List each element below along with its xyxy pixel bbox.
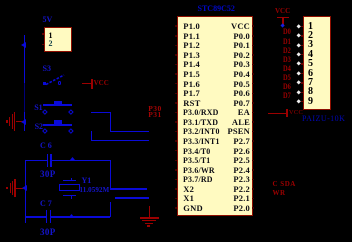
button S1 left terminal [42,109,47,114]
node junction arrow GND2 [22,185,27,191]
IC right pin stubs [252,25,254,27]
wire ground rail vertical [25,160,27,224]
button S2 bar [43,124,72,126]
net label WR [273,190,286,197]
pin number 2 [308,31,313,41]
net label D6 [283,83,291,91]
net label P31 [148,111,162,119]
pin diamond 3 [297,43,302,48]
button S2 cap [54,120,62,123]
label PAIZU-10K [302,115,345,123]
connector J1 5V box [44,27,72,53]
net label D4 [283,65,291,73]
net label D7 [283,92,291,100]
capacitor C6 right lead [52,160,111,162]
pin diamond 4 [297,52,302,57]
crystal Y1 box [59,184,80,192]
button S1 label [34,104,42,112]
pin stub 9 [301,101,303,103]
ground GND1 bars [9,117,11,127]
button S2 left terminal [42,128,47,133]
wire bar at ground GND1 [24,112,26,131]
ground GND3 bars [140,217,159,218]
wire S2 to INT1 [91,140,149,142]
ground GND2 lead [16,188,24,189]
switch S3 right terminal [58,81,61,84]
power flag VCC top right [275,8,290,15]
net label D5 [283,74,291,82]
pin stub 1 [301,26,303,28]
ground GND1 dot [6,120,8,122]
node junction tick C6 [70,157,75,160]
wire S1 to INT0 [110,131,150,133]
pin stub 4 [301,54,303,56]
net label D3 [283,56,291,64]
ground GND3 dot [147,225,150,226]
value 30P C6 [40,170,56,179]
ground GND1 lead [16,121,23,122]
net label C SDA [273,181,296,188]
crystal Y1 top stub [71,178,72,180]
wire 5V pin1 rail [24,35,26,83]
pin stub 5 [301,63,303,65]
pin diamond 6 [297,71,302,76]
pin stub 7 [301,82,303,84]
capacitor C7 label [40,200,52,208]
value 30P C7 [40,228,56,237]
node junction dot [280,24,285,29]
label 5V [43,16,53,24]
pin diamond 9 [297,99,302,104]
pin stub 8 [301,92,303,94]
wire to X2 pin [110,188,147,190]
pin 2 number [49,40,53,48]
button S2 label [35,123,43,131]
pin diamond 7 [297,80,302,85]
pin stub 2 [301,35,303,37]
button S2 right terminal [68,128,73,133]
connector J1 pin stubs [42,33,45,35]
wire S1 vertical [110,112,112,131]
button S1 bar [43,104,72,106]
wire S1 horizontal [91,112,111,114]
crystal Y1 top plate [63,180,77,181]
pin diamond 8 [297,90,302,95]
wire C6 down to X2 [110,160,112,190]
crystal Y1 bottom stub [71,196,72,199]
switch S3 left terminal [43,82,46,85]
pin number 7 [308,78,313,88]
pin diamond 2 [297,33,302,38]
IC U1 STC89C52 body [177,16,253,217]
label VCC left [94,80,109,87]
crystal Y1 bottom plate [63,195,77,196]
node junction tick C7 [69,214,74,217]
capacitor C7 plates [46,210,48,223]
power flag VCC left [82,83,91,84]
wire to X1 pin [115,197,149,199]
ground GND3 stem [149,206,150,217]
connector P1 box [303,16,331,111]
button S1 cap [54,101,62,104]
pin stub 6 [301,73,303,75]
crystal label Y1 [82,177,92,185]
net label D0 [283,28,291,36]
net label D2 [283,47,291,55]
wire S2 vertical [91,131,93,140]
IC title STC89C52 [198,5,235,13]
IC left pin stubs [175,25,177,27]
pin diamond 1 [297,24,302,29]
capacitor C6 label [40,142,52,150]
crystal value 11.0592M [80,187,110,194]
pin stub 3 [301,45,303,47]
button S1 right terminal [68,109,73,114]
pin 1 number [49,32,53,40]
net label P30 [148,105,162,113]
pin number 5 [308,59,313,69]
pin number 6 [308,69,313,79]
ground GND2 bars [10,183,12,193]
pin number 1 [308,22,313,32]
node junction arrow on rail [21,42,26,48]
switch S3 blade [44,73,66,86]
power flag VCC bottom right [268,113,286,114]
pin diamond 5 [297,62,302,67]
ground GND2 dot [6,187,8,189]
wire C7 up toward X1 [110,202,112,216]
capacitor C6 plates [47,154,49,167]
pin number 8 [308,87,313,97]
capacitor C7 left lead [26,216,46,218]
switch S3 label [43,65,51,73]
net label D1 [283,38,291,46]
node junction arrow GND1 [21,119,26,125]
IC left pin names [183,22,200,31]
capacitor C7 right lead [51,216,110,218]
pin number 4 [308,50,313,60]
pin number 3 [308,40,313,50]
wire 5V rail faint lower [24,83,25,112]
pin number 9 [308,97,313,107]
IC right pin names [231,22,250,31]
capacitor C6 left lead [26,160,47,162]
